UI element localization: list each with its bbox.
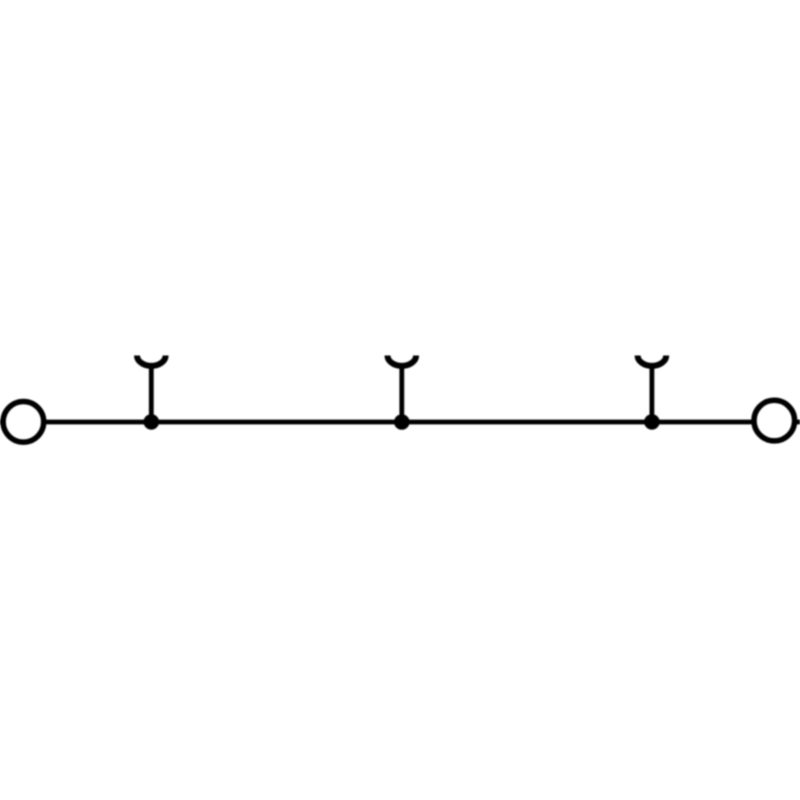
terminal circle right (open terminal) <box>754 400 795 441</box>
test socket 2 (open cup symbol) <box>388 356 417 366</box>
test socket 3 (open cup symbol) <box>638 356 667 366</box>
node 2: junction dot on bus <box>394 414 410 430</box>
wire: stem of test socket 1 <box>149 365 154 422</box>
wire: main horizontal bus from left edge to right edge <box>0 420 800 425</box>
node 3: junction dot on bus <box>644 414 660 430</box>
wire: stem of test socket 3 <box>650 365 655 422</box>
node 1: junction dot on bus <box>144 414 160 430</box>
test socket 1 (open cup symbol) <box>137 356 166 366</box>
wire: stem of test socket 2 <box>399 365 404 422</box>
terminal circle left (open terminal) <box>3 402 44 443</box>
